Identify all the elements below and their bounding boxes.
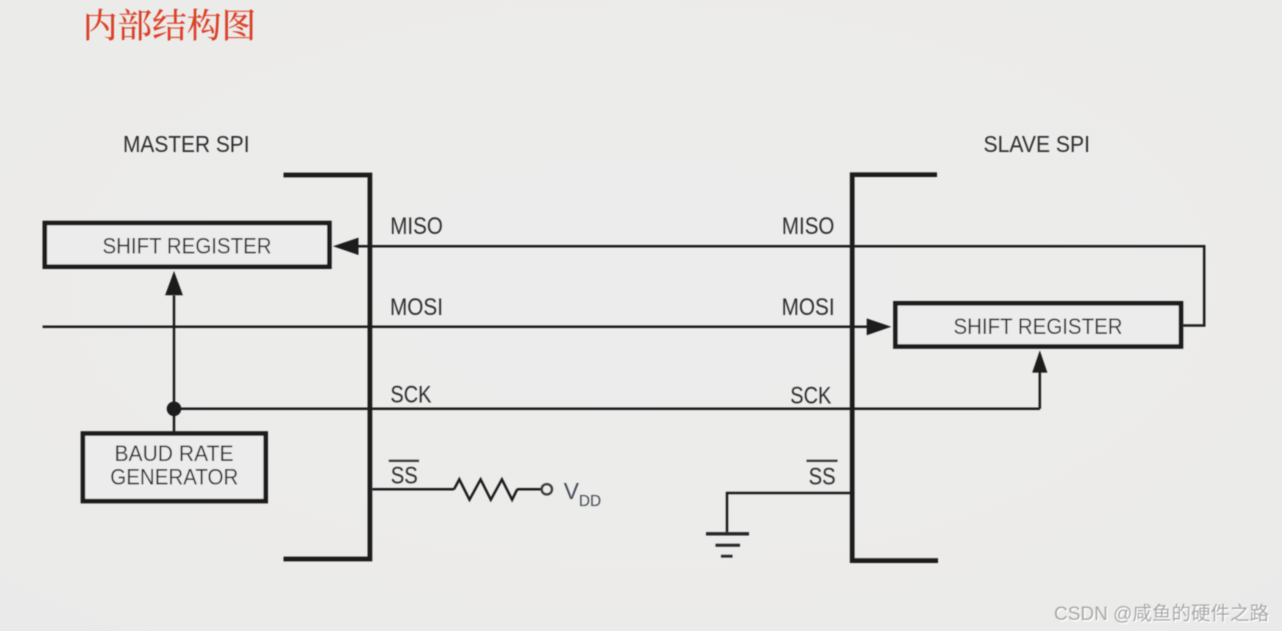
svg-text:SCK: SCK [390, 382, 431, 409]
svg-text:MOSI: MOSI [782, 294, 835, 321]
svg-text:V: V [564, 478, 580, 504]
svg-text:MISO: MISO [390, 213, 443, 240]
svg-text:SS: SS [809, 463, 836, 490]
svg-text:CSDN @: CSDN @ [1054, 604, 1132, 625]
svg-text:SHIFT REGISTER: SHIFT REGISTER [103, 233, 272, 258]
svg-text:SCK: SCK [790, 383, 831, 410]
svg-text:DD: DD [579, 493, 601, 510]
svg-text:SHIFT REGISTER: SHIFT REGISTER [954, 314, 1123, 339]
svg-text:MISO: MISO [782, 213, 835, 240]
svg-text:SS: SS [391, 462, 418, 489]
svg-text:BAUD RATE: BAUD RATE [115, 441, 234, 466]
svg-text:GENERATOR: GENERATOR [110, 464, 238, 489]
svg-text:SLAVE SPI: SLAVE SPI [984, 131, 1091, 157]
svg-text:MASTER SPI: MASTER SPI [123, 131, 250, 157]
svg-text:MOSI: MOSI [390, 294, 443, 321]
